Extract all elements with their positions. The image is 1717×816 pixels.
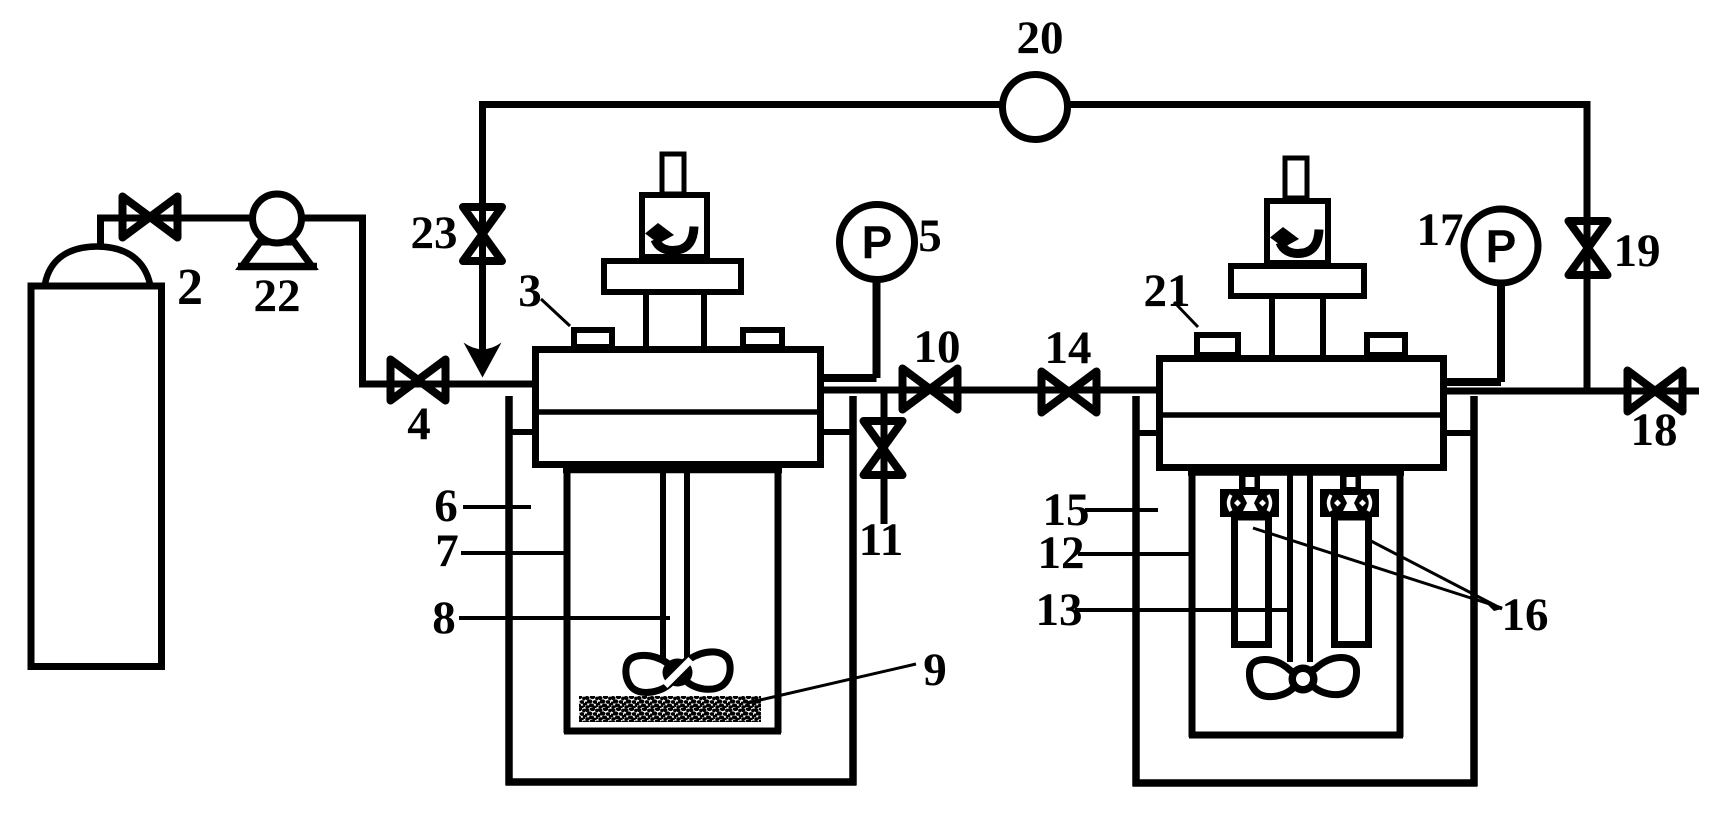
svg-text:12: 12 <box>1038 527 1085 579</box>
svg-text:2: 2 <box>177 259 203 316</box>
svg-text:3: 3 <box>518 265 542 317</box>
svg-text:10: 10 <box>914 321 961 373</box>
svg-text:19: 19 <box>1614 225 1661 277</box>
svg-text:P: P <box>1486 221 1517 273</box>
svg-text:P: P <box>862 217 893 269</box>
svg-text:18: 18 <box>1631 404 1678 456</box>
svg-text:13: 13 <box>1036 584 1083 636</box>
svg-text:23: 23 <box>411 207 458 259</box>
svg-text:14: 14 <box>1045 322 1092 374</box>
svg-text:16: 16 <box>1502 589 1549 641</box>
svg-text:17: 17 <box>1417 204 1464 256</box>
svg-text:7: 7 <box>435 525 459 577</box>
svg-text:9: 9 <box>923 644 947 696</box>
svg-text:20: 20 <box>1017 12 1064 64</box>
svg-text:5: 5 <box>918 210 942 262</box>
svg-text:11: 11 <box>859 514 903 566</box>
svg-text:4: 4 <box>407 398 431 450</box>
svg-text:21: 21 <box>1144 265 1191 317</box>
svg-text:8: 8 <box>432 592 456 644</box>
svg-text:22: 22 <box>254 270 301 322</box>
